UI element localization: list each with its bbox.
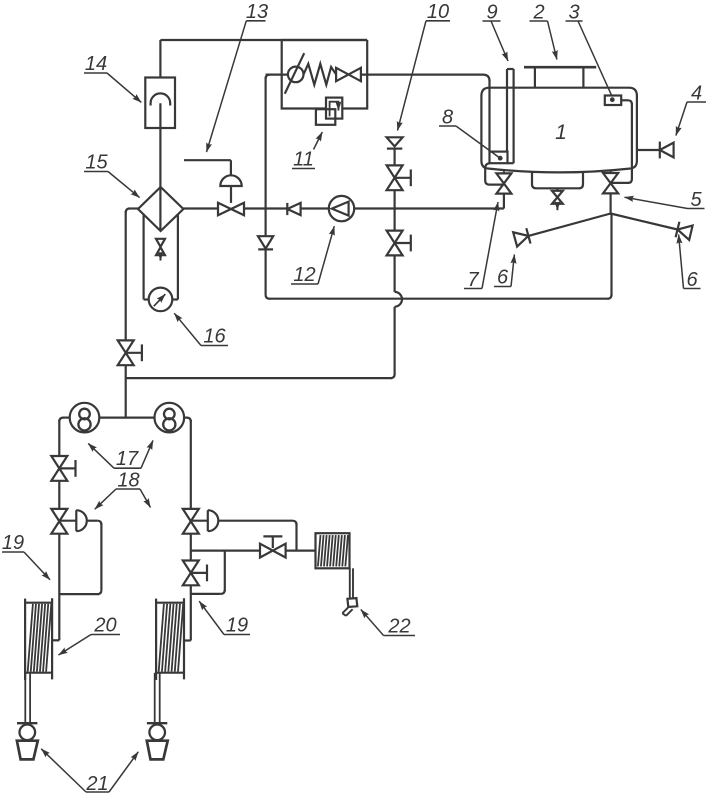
svg-text:20: 20 <box>93 615 116 637</box>
svg-text:10: 10 <box>427 1 449 23</box>
svg-text:14: 14 <box>85 53 107 75</box>
svg-text:1: 1 <box>555 121 567 144</box>
svg-text:16: 16 <box>203 326 226 348</box>
svg-text:19: 19 <box>226 615 248 637</box>
svg-text:15: 15 <box>85 152 108 174</box>
svg-text:19: 19 <box>2 532 24 554</box>
svg-text:12: 12 <box>293 264 315 286</box>
svg-text:13: 13 <box>246 1 268 23</box>
svg-text:22: 22 <box>387 616 410 638</box>
svg-text:17: 17 <box>116 448 139 470</box>
svg-text:6: 6 <box>497 267 509 289</box>
svg-text:11: 11 <box>293 149 314 171</box>
